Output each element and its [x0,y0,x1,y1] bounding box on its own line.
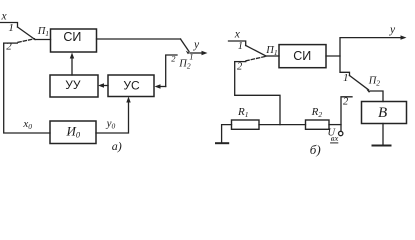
wire SI output to switch P2 (a) [97,38,181,40]
svg-text:R2: R2 [311,106,323,119]
node 1 label (P2 b) [343,72,349,84]
svg-text:СИ: СИ [63,30,81,44]
node x0 label [22,118,32,131]
node 1 label (P1 b) [238,41,243,52]
switch P1 arm (solid, b) [246,46,266,57]
node 2 contact stub (P2 a) [166,55,177,87]
wire I0 output y0 to US bottom [96,100,129,133]
svg-text:y: y [193,39,200,51]
node 2 contact stub (P1 b) [235,61,246,63]
underline under Uin subscript [331,142,338,144]
wire P1 contact2 down the left side to x0 (a) [4,43,50,133]
block I0 (reference element, a) [50,121,96,144]
ground below B (b) [382,124,384,146]
block UU (control unit, a) [50,75,98,97]
resistor R1 (b) [232,120,260,129]
svg-text:x: x [234,28,241,40]
arrow UU to SI (vertical) [71,56,73,75]
svg-text:СИ: СИ [293,49,311,63]
caption b) [310,142,321,157]
wire x input to switch contact 1 (b) [229,41,246,46]
svg-text:2: 2 [171,53,176,63]
svg-text:2: 2 [6,41,12,53]
output y arrow (b) [401,35,407,39]
caption a) [112,139,122,153]
switch P2 label (a) [178,59,191,71]
wire P2 contact2 feedback to US input (a) [158,86,166,88]
block B (voltmeter, b) [362,102,407,124]
switch P1 label (b) [265,45,277,57]
node 2 label (P1 a) [6,41,12,53]
terminal circle Uin (b) [339,131,343,135]
wire x input to switch contact 1 (a) [0,23,18,28]
svg-text:y0: y0 [106,118,116,131]
node 2 label (P2 b) [343,97,349,108]
switch P1 label (a) [37,26,49,38]
svg-text:x0: x0 [22,118,32,131]
switch P1 alternate position (dashed, b) [246,57,265,61]
svg-text:б): б) [310,142,321,157]
block SI (b) [279,45,326,68]
wire P1 pivot to SI input (b) [266,55,279,57]
svg-text:y: y [389,24,396,36]
resistor R2 (b) [306,120,330,129]
svg-text:а): а) [112,139,122,153]
svg-text:П1: П1 [37,26,49,38]
wire branch down to P2 contact 1 (b) [340,56,350,76]
svg-text:2: 2 [343,97,349,108]
node y0 label [106,118,116,131]
switch P2 arm with arrow (b) [350,76,369,90]
wire SI output branch (b) [326,38,402,56]
svg-text:И0: И0 [66,123,81,139]
switch P2 arm with arrow (a) [181,39,190,52]
svg-text:вх: вх [331,133,339,143]
node 2 label (P1 b) [237,62,243,73]
svg-text:1: 1 [8,22,14,34]
node Uin label (b) [328,127,339,143]
node x (input label, diagram b) [234,28,241,40]
node x (input label, diagram a) [1,11,8,23]
svg-text:1: 1 [238,41,243,52]
arrow US to UU [102,85,109,87]
node 2 label (P2 a) [171,53,176,63]
switch P1 alternate position (dashed, a) [18,39,35,43]
svg-text:R1: R1 [237,106,248,119]
svg-text:1: 1 [343,72,349,84]
svg-text:В: В [378,105,387,121]
node 1 label (switch P1 a) [8,22,14,34]
svg-text:П2: П2 [368,76,381,88]
svg-text:УС: УС [123,79,140,93]
contact stub above B block (b) [371,91,384,102]
switch P1 arm (solid, a) [18,27,36,40]
switch P2 label (b) [368,76,381,88]
svg-text:x: x [1,11,8,23]
svg-text:УУ: УУ [65,78,81,92]
node 2 contact stub (P1 a) [4,42,18,44]
ground below R1 wire (b) [216,142,228,144]
wire R2 right to Uin terminal (b) [329,124,341,126]
output y arrow (a) [190,52,204,54]
wire P1 contact2 down to resistor junction (b) [235,62,280,125]
wire P1 pivot to SI input (a) [35,39,51,41]
block SI (pulse former, a) [51,29,97,52]
node 1 label (P2 a) [189,52,193,62]
block US (comparison unit, a) [108,75,154,97]
wire R1 to R2 (b) [259,124,306,126]
wire R1 left to ground (b) [222,125,232,144]
svg-text:2: 2 [237,62,243,73]
svg-text:П1: П1 [265,45,277,57]
node 2 contact stub (P2 b) [341,97,352,131]
